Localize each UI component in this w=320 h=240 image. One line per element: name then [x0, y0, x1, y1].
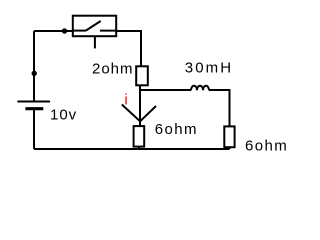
wire middle branch horizontal — [140, 89, 191, 91]
wire box to top-right corner — [116, 31, 141, 66]
wire top-left horizontal — [34, 30, 73, 32]
svg-text:6ohm: 6ohm — [155, 121, 198, 138]
current arrow i — [122, 105, 156, 122]
inductor L1 30mH — [191, 86, 209, 91]
wire R3 to bottom — [229, 147, 231, 149]
wire inductor to right corner — [209, 90, 230, 126]
svg-text:i: i — [124, 91, 127, 108]
wire left vertical (top) — [33, 31, 35, 101]
resistor R2 6ohm (middle) — [134, 126, 145, 147]
resistor R1 2ohm — [136, 66, 148, 85]
battery V1 10v — [17, 102, 50, 109]
svg-text:6ohm: 6ohm — [245, 137, 288, 154]
node (dot on top wire) — [62, 28, 67, 33]
wire bottom horizontal — [34, 148, 230, 150]
svg-text:2ohm: 2ohm — [92, 61, 134, 78]
resistor R3 6ohm (right) — [224, 126, 234, 147]
wire battery to bottom — [33, 110, 35, 149]
svg-text:10v: 10v — [50, 106, 77, 123]
svg-text:30mH: 30mH — [185, 60, 233, 77]
switch S1 (boxed) — [73, 16, 116, 49]
node (dot on left wire) — [32, 71, 37, 76]
wire R2 to bottom — [138, 147, 140, 149]
wire middle vertical below R1 — [139, 85, 141, 126]
